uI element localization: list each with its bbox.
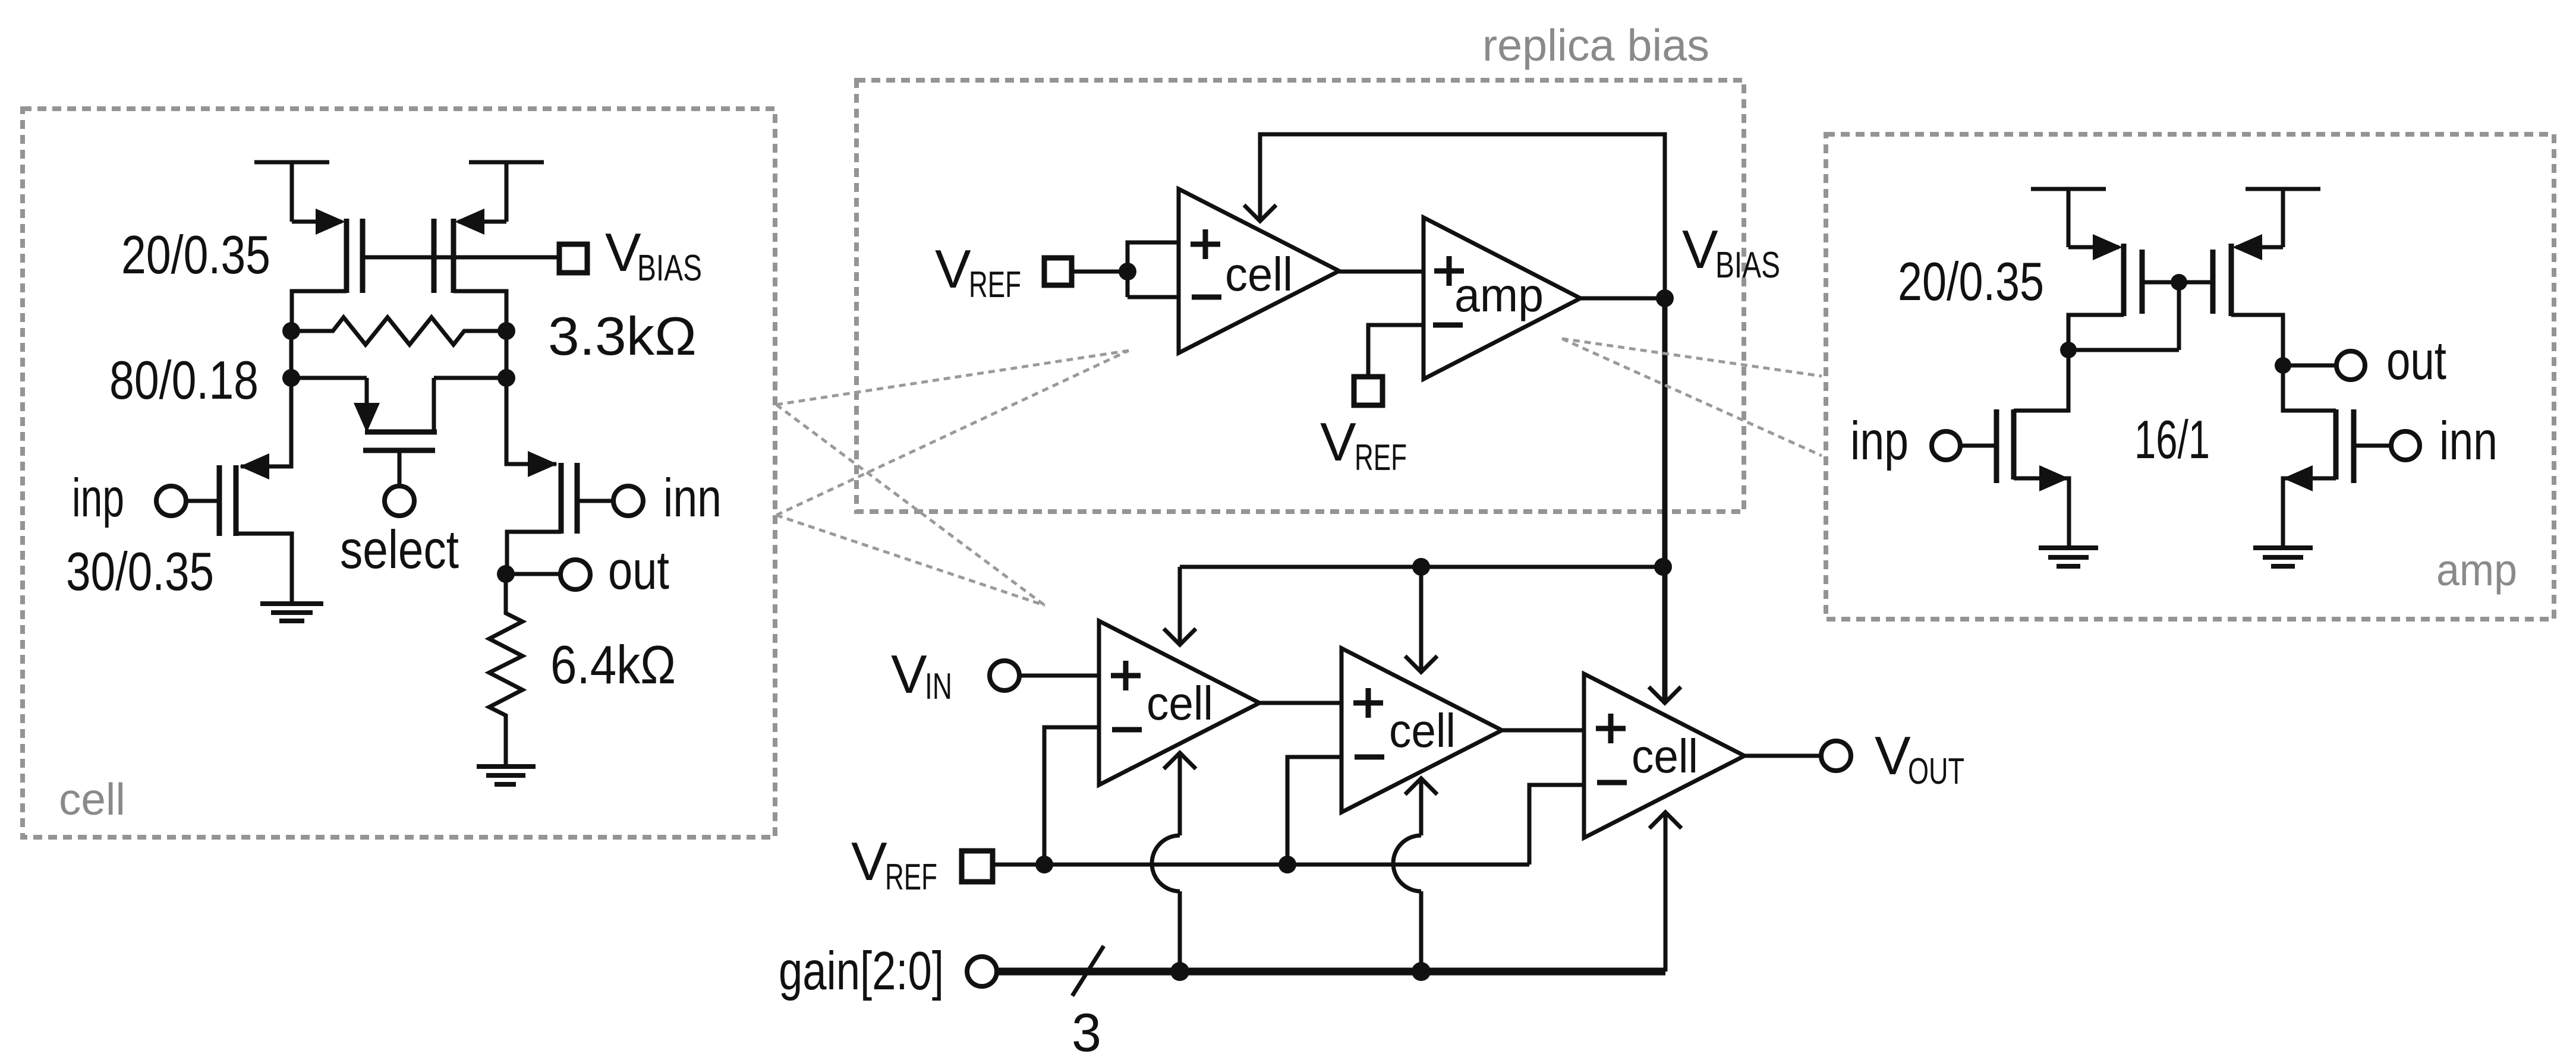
op-amp U5 (cell 3) — [1584, 674, 1744, 838]
svg-text:inn: inn — [2439, 411, 2498, 471]
wire VREF — [1072, 270, 1128, 274]
wire VIN — [1020, 674, 1099, 678]
input fork wires — [1128, 242, 1179, 297]
svg-text:30/0.35: 30/0.35 — [66, 542, 214, 602]
gain wire 3 — [1664, 812, 1668, 971]
svg-text:replica bias: replica bias — [1482, 20, 1709, 70]
U5 minus fork — [1529, 785, 1584, 865]
wire U2 out — [1580, 296, 1665, 301]
svg-text:amp: amp — [1454, 269, 1544, 321]
svg-text:V: V — [891, 645, 927, 705]
svg-text:V: V — [851, 832, 887, 892]
junction A — [282, 369, 300, 387]
svg-text:V: V — [605, 223, 641, 283]
amp detail box — [1826, 134, 2554, 619]
terminal VREF square — [962, 851, 993, 882]
node P (left drain) — [282, 322, 300, 340]
terminal gain — [967, 957, 997, 986]
gain wire 2 with hop — [1393, 778, 1421, 971]
terminal VOUT — [1821, 741, 1851, 771]
leader cell box to U1 lower — [776, 351, 1129, 515]
svg-text:16/1: 16/1 — [2134, 410, 2210, 470]
arrow into U3 bottom — [1164, 753, 1196, 769]
ground GND3 — [2039, 548, 2098, 566]
transistor M4 (left NMOS inp 30/0.35) — [156, 378, 292, 604]
VREF distribution wire — [993, 863, 1529, 867]
mirror wire — [2068, 348, 2179, 352]
terminal VREF square 2 — [1354, 377, 1383, 405]
transistor M9 (right NMOS inn) — [2283, 365, 2420, 548]
transistor M5 (right NMOS inn) — [506, 378, 643, 574]
VBIAS distribution wire — [1180, 565, 1663, 569]
svg-text:cell: cell — [1632, 730, 1698, 783]
vdd rail left — [254, 162, 329, 222]
svg-text:REF: REF — [1355, 437, 1407, 478]
transistor M3 (select switch) — [354, 378, 437, 516]
U3 minus fork — [1044, 727, 1099, 865]
junction VBIAS — [1656, 289, 1674, 307]
junction — [1412, 962, 1431, 981]
feedback wire — [1260, 134, 1665, 298]
leader U2 to amp box lower — [1562, 339, 1822, 456]
op-amp U4 (cell 2) — [1341, 648, 1502, 812]
terminal VIN — [990, 661, 1019, 690]
junction — [1119, 263, 1136, 280]
resistor R1 3.3k — [291, 317, 506, 345]
svg-text:IN: IN — [925, 666, 952, 707]
drop wire to U3 — [1178, 567, 1182, 643]
svg-text:amp: amp — [2436, 545, 2517, 595]
svg-text:out: out — [2386, 331, 2446, 391]
U2 minus wire — [1368, 325, 1424, 377]
transistor M1 (left PMOS 20/0.35) — [292, 209, 363, 331]
svg-text:6.4kΩ: 6.4kΩ — [550, 635, 676, 695]
svg-text:inp: inp — [1850, 411, 1909, 471]
terminal VREF square — [1044, 258, 1072, 285]
terminal out — [2336, 351, 2365, 380]
svg-text:V: V — [1875, 726, 1911, 786]
svg-text:gain[2:0]: gain[2:0] — [779, 941, 944, 1001]
svg-text:REF: REF — [969, 264, 1021, 305]
wire U5 out — [1744, 754, 1821, 758]
op-amp U2 (amp) — [1424, 217, 1580, 379]
ground GND4 — [2253, 548, 2313, 566]
svg-text:inn: inn — [663, 468, 722, 528]
wire U3 out — [1259, 701, 1341, 705]
bus slash — [1072, 946, 1104, 996]
svg-text:V: V — [1320, 412, 1356, 472]
arrow into U4 bottom — [1405, 778, 1437, 794]
ground GND1 — [260, 604, 323, 621]
arrow into U5 bottom — [1649, 812, 1681, 828]
svg-text:80/0.18: 80/0.18 — [109, 351, 259, 411]
gate junction — [2171, 274, 2187, 291]
junction left drain — [2060, 342, 2077, 358]
junction — [1654, 558, 1672, 576]
arrow into U1 — [1244, 205, 1276, 221]
node out — [2275, 357, 2291, 374]
node Q (right drain) — [497, 322, 515, 340]
vdd rail right — [2246, 189, 2320, 247]
svg-text:BIAS: BIAS — [637, 248, 702, 289]
cell detail box — [23, 109, 775, 837]
wire U1 out to U2 — [1339, 270, 1424, 274]
arrow into U5 top — [1649, 687, 1681, 703]
svg-text:3.3kΩ: 3.3kΩ — [548, 307, 697, 367]
drop wire to U4 — [1419, 567, 1424, 670]
terminal VBIAS square — [559, 244, 587, 273]
leader cell box to U3 lower — [776, 515, 1045, 605]
svg-text:3: 3 — [1072, 1003, 1101, 1063]
svg-text:OUT: OUT — [1908, 751, 1964, 792]
svg-text:V: V — [935, 239, 971, 299]
wire U4 out — [1502, 728, 1584, 733]
U4 minus fork — [1287, 757, 1341, 865]
gain bus wire — [997, 968, 1665, 976]
svg-text:REF: REF — [885, 857, 937, 898]
svg-text:select: select — [340, 520, 459, 580]
junction — [1412, 558, 1430, 576]
leader cell box to U3 — [776, 405, 1045, 605]
VBIAS line down — [1662, 298, 1668, 701]
junction — [1170, 962, 1189, 981]
svg-text:20/0.35: 20/0.35 — [1898, 252, 2044, 312]
transistor M6 (left PMOS 20/0.35) — [2068, 234, 2142, 350]
junction — [1035, 856, 1053, 873]
junction B — [497, 369, 515, 387]
arrow into U3 top — [1164, 629, 1196, 645]
svg-text:out: out — [608, 541, 669, 601]
svg-text:cell: cell — [59, 774, 125, 824]
arrow into U4 top — [1405, 656, 1437, 672]
node A line left — [291, 376, 367, 380]
gate wire — [2142, 280, 2213, 285]
svg-text:cell: cell — [1147, 677, 1213, 730]
node B line right — [434, 376, 506, 380]
replica bias box — [856, 80, 1744, 512]
terminal out — [560, 560, 590, 589]
gain wire 1 with hop — [1152, 753, 1180, 971]
wire — [505, 331, 509, 378]
op-amp U1 (cell) — [1179, 189, 1339, 353]
op-amp U3 (cell 1) — [1099, 621, 1259, 785]
leader cell box to U1 — [776, 351, 1129, 405]
svg-text:20/0.35: 20/0.35 — [121, 225, 270, 285]
svg-text:V: V — [1682, 220, 1718, 280]
transistor M7 (right PMOS) — [2213, 234, 2283, 365]
wire to out — [2283, 364, 2336, 368]
node out — [497, 565, 515, 583]
svg-text:inp: inp — [72, 468, 124, 528]
svg-text:cell: cell — [1389, 704, 1456, 757]
transistor M8 (left NMOS inp) — [1932, 350, 2069, 548]
vdd rail right — [469, 162, 544, 222]
wire to out — [506, 572, 560, 576]
svg-text:cell: cell — [1225, 248, 1293, 301]
leader U2 to amp box upper — [1562, 339, 1822, 376]
svg-text:BIAS: BIAS — [1715, 245, 1780, 286]
ground GND2 — [477, 767, 536, 784]
gate wire to VBIAS — [363, 256, 559, 260]
gate drop wire — [2177, 282, 2181, 350]
vdd rail left — [2031, 189, 2106, 247]
junction — [1278, 856, 1296, 873]
transistor M2 (right PMOS) — [434, 209, 506, 331]
resistor R2 6.4k — [489, 574, 522, 767]
wire — [289, 331, 294, 378]
